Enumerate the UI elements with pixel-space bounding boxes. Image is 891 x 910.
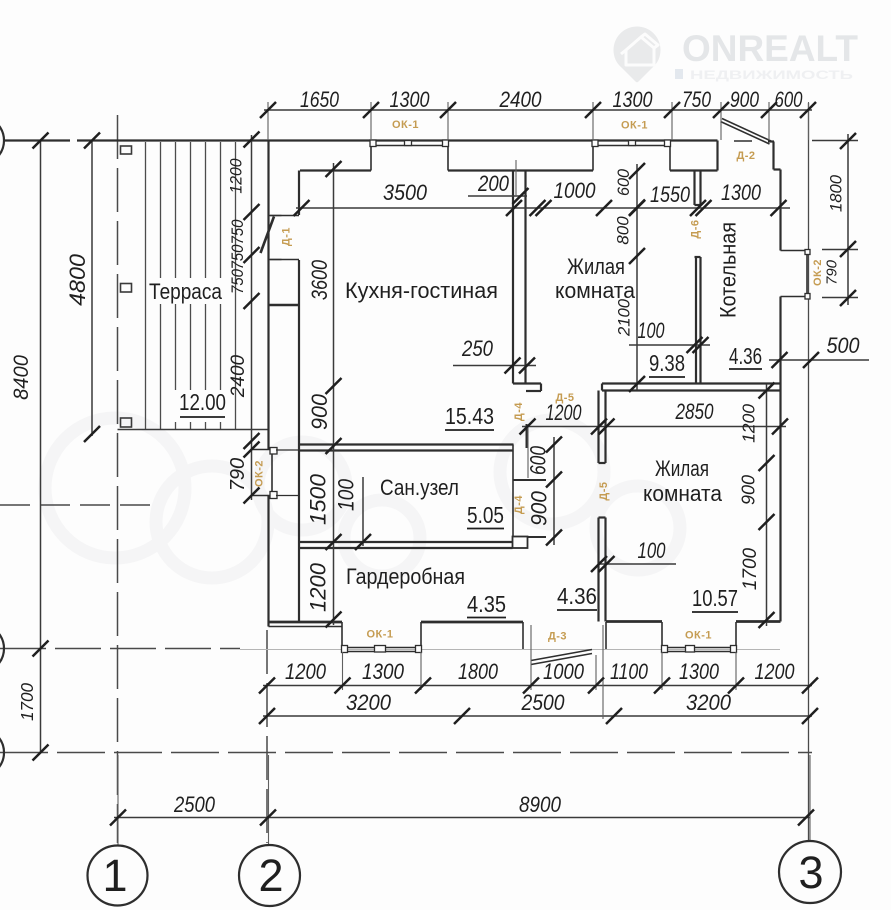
svg-text:9.38: 9.38	[649, 351, 685, 376]
svg-text:НЕДВИЖИМОСТЬ: НЕДВИЖИМОСТЬ	[690, 68, 854, 82]
svg-text:2: 2	[258, 850, 283, 901]
svg-text:500: 500	[827, 334, 860, 358]
svg-text:1500: 1500	[306, 474, 331, 525]
svg-text:2500: 2500	[521, 691, 565, 715]
svg-text:100: 100	[638, 320, 665, 344]
svg-text:Д-5: Д-5	[555, 392, 574, 404]
svg-text:1550: 1550	[650, 183, 690, 207]
svg-text:1200: 1200	[738, 404, 758, 443]
svg-text:2100: 2100	[614, 298, 633, 337]
svg-text:комната: комната	[643, 482, 722, 507]
svg-text:3500: 3500	[383, 181, 427, 205]
svg-text:800: 800	[614, 216, 633, 245]
svg-text:1800: 1800	[826, 174, 845, 212]
svg-text:4.35: 4.35	[467, 591, 506, 618]
svg-text:100: 100	[334, 479, 359, 511]
svg-text:Жилая: Жилая	[655, 457, 709, 482]
svg-text:900: 900	[307, 394, 332, 430]
svg-text:1300: 1300	[721, 181, 761, 205]
svg-text:Котельная: Котельная	[717, 222, 741, 318]
svg-text:1000: 1000	[554, 179, 597, 204]
svg-text:900: 900	[730, 88, 759, 112]
svg-text:4.36: 4.36	[557, 583, 597, 609]
svg-text:3200: 3200	[686, 691, 731, 715]
svg-text:1200: 1200	[755, 660, 795, 684]
svg-text:3: 3	[798, 847, 823, 898]
svg-text:900: 900	[527, 491, 552, 526]
svg-text:1000: 1000	[543, 661, 585, 685]
svg-text:2500: 2500	[173, 794, 216, 818]
svg-text:1300: 1300	[362, 660, 405, 685]
svg-text:750: 750	[229, 269, 247, 294]
svg-text:1200: 1200	[227, 158, 246, 193]
svg-text:5.05: 5.05	[467, 503, 504, 528]
svg-text:Д-2: Д-2	[736, 150, 755, 162]
svg-text:1650: 1650	[300, 88, 339, 112]
svg-text:3600: 3600	[308, 259, 332, 300]
svg-text:ОК-1: ОК-1	[621, 120, 648, 132]
svg-text:2400: 2400	[499, 88, 542, 113]
svg-text:1800: 1800	[458, 660, 498, 684]
svg-text:100: 100	[638, 539, 666, 564]
svg-text:750: 750	[229, 219, 247, 244]
svg-text:10.57: 10.57	[692, 586, 738, 611]
svg-text:Терраса: Терраса	[149, 280, 222, 305]
svg-text:1700: 1700	[17, 683, 38, 721]
svg-text:1100: 1100	[610, 660, 648, 684]
svg-text:Гардеробная: Гардеробная	[346, 565, 465, 589]
svg-text:12.00: 12.00	[179, 390, 226, 415]
svg-text:1300: 1300	[679, 660, 719, 684]
svg-text:600: 600	[527, 446, 551, 475]
svg-text:790: 790	[824, 259, 841, 285]
svg-text:900: 900	[739, 475, 759, 505]
svg-text:600: 600	[614, 168, 633, 196]
svg-text:250: 250	[461, 338, 493, 362]
svg-text:1300: 1300	[613, 88, 653, 112]
svg-text:Д-6: Д-6	[690, 219, 702, 238]
svg-text:Сан.узел: Сан.узел	[380, 476, 459, 501]
svg-text:Д-3: Д-3	[548, 631, 567, 643]
svg-text:ONREALT: ONREALT	[682, 28, 858, 69]
svg-text:750: 750	[682, 88, 711, 112]
svg-text:1: 1	[102, 850, 127, 901]
svg-text:ОК-2: ОК-2	[254, 460, 266, 487]
svg-text:ОК-1: ОК-1	[366, 629, 393, 641]
svg-text:ОК-2: ОК-2	[812, 259, 824, 286]
svg-text:3200: 3200	[346, 691, 391, 715]
svg-text:Д-1: Д-1	[281, 227, 293, 246]
svg-text:Д-4: Д-4	[513, 495, 525, 514]
svg-text:750: 750	[229, 244, 247, 269]
svg-text:1200: 1200	[546, 402, 582, 426]
svg-text:1200: 1200	[285, 661, 327, 685]
svg-text:1700: 1700	[740, 547, 761, 590]
svg-text:8400: 8400	[10, 355, 33, 400]
svg-text:200: 200	[477, 173, 509, 197]
svg-text:Кухня-гостиная: Кухня-гостиная	[345, 278, 498, 303]
svg-text:Д-5: Д-5	[598, 481, 610, 500]
svg-text:Жилая: Жилая	[567, 256, 625, 280]
svg-text:Д-4: Д-4	[513, 402, 525, 421]
svg-text:1200: 1200	[306, 562, 331, 612]
svg-text:4.36: 4.36	[729, 345, 762, 370]
svg-text:2400: 2400	[228, 354, 249, 398]
svg-text:15.43: 15.43	[445, 404, 494, 430]
svg-text:600: 600	[775, 88, 803, 113]
svg-text:комната: комната	[555, 278, 635, 303]
svg-text:8900: 8900	[519, 793, 562, 818]
svg-text:ОК-1: ОК-1	[392, 119, 419, 131]
svg-text:790: 790	[227, 458, 249, 491]
svg-text:ОК-1: ОК-1	[685, 630, 712, 642]
svg-text:2850: 2850	[675, 400, 714, 425]
svg-text:4800: 4800	[65, 254, 90, 306]
svg-text:1300: 1300	[390, 88, 430, 112]
